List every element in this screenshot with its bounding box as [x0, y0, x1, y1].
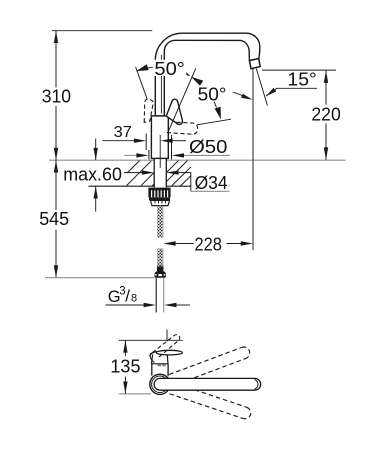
dim 135 line upper part	[124, 340, 126, 356]
deck hatching left	[127, 161, 155, 186]
svg-text:8: 8	[131, 293, 137, 305]
deck hatching right	[166, 161, 191, 186]
svg-text:37: 37	[114, 124, 132, 141]
bottom view lever front lip	[150, 352, 157, 363]
axis line A of dashed-left handle	[136, 67, 148, 99]
horizontal reference line at spout outlet height	[262, 69, 336, 71]
mounting nut middle band	[149, 197, 170, 200]
dim 545 bottom reference line	[45, 277, 155, 279]
dim O50 left tail and arrowhead	[124, 154, 136, 156]
mounting nut knurled ring	[148, 188, 170, 198]
dim 545 line upper part	[55, 160, 57, 210]
dim 310 arrow up	[54, 31, 58, 43]
spout outlet 15deg axis line	[256, 69, 267, 106]
dim 228 line right part	[227, 243, 245, 245]
spout aerator band	[249, 59, 260, 69]
dim 310 line upper part	[55, 31, 57, 88]
axis line C of dashed-right handle	[197, 119, 231, 125]
dim 310 arrow down	[54, 148, 58, 160]
dim max60 lower arrowhead	[94, 186, 98, 198]
dim max60 upper arrow stem	[95, 139, 97, 161]
spout outlet vertical extension line	[252, 68, 254, 250]
dashed spout position lower	[169, 383, 252, 421]
dim 545 arrow down	[54, 265, 58, 277]
50deg arc 2 lower stub	[214, 102, 216, 108]
bottom view solid spout capsule	[154, 378, 261, 390]
dim 220 arrow down	[324, 147, 328, 159]
svg-text:135: 135	[110, 356, 140, 376]
50deg arc 1 left arrowhead	[136, 64, 149, 71]
dim O34 line left part	[124, 172, 142, 174]
dim 545 line lower part	[55, 230, 57, 278]
dim 228 line left part	[174, 243, 194, 245]
50deg arc 1 left stub	[137, 67, 154, 71]
dim 310 line lower part	[55, 106, 57, 160]
body centerline	[159, 135, 161, 168]
dashed handle (left position)	[144, 99, 153, 122]
bottom view logo mark	[158, 364, 161, 366]
hose end connector cap	[157, 266, 164, 271]
15deg arc tail left with arrowhead	[233, 92, 246, 97]
dim max60 lower arrow stem	[95, 186, 97, 212]
svg-text:15°: 15°	[287, 69, 316, 89]
dim 228 left arrowhead at hose	[163, 241, 175, 245]
svg-text:310: 310	[42, 87, 71, 107]
faucet shank through deck	[153, 159, 155, 188]
svg-text:50°: 50°	[198, 84, 227, 104]
bottom view lever ellipse	[156, 350, 182, 355]
svg-text:50°: 50°	[154, 59, 184, 79]
dim 135 line lower part	[124, 377, 126, 394]
extension stub right of body	[171, 135, 173, 159]
svg-text:Ø34: Ø34	[195, 173, 228, 193]
dim 37 left-pointing arrowhead at centerline with tail	[160, 139, 172, 143]
label G3/8	[108, 286, 137, 306]
spout capsule end inner arc	[255, 380, 259, 390]
axis line B of solid handle	[168, 68, 196, 131]
extension line above dashed handle	[166, 330, 168, 342]
dim 220 arrow up	[324, 71, 328, 83]
svg-text:220: 220	[311, 104, 340, 124]
dim O34 right-pointing arrowhead at shank left	[142, 170, 154, 174]
faucet body	[151, 116, 168, 158]
faucet spout tube (U-shape)	[155, 33, 260, 116]
countertop deck top line	[49, 159, 346, 161]
dim 228 right arrowhead at outlet axis	[241, 241, 253, 245]
50deg arc 1 right arrowhead	[179, 68, 191, 77]
dim 135 arrow down	[123, 382, 127, 394]
svg-text:Ø50: Ø50	[189, 137, 227, 157]
bottom view top reference line	[119, 339, 183, 341]
extension stub left of body	[148, 150, 150, 160]
dim G3/8 line right with arrowhead	[177, 304, 191, 306]
bottom view spout ring middle	[152, 376, 169, 393]
svg-text:228: 228	[195, 234, 222, 254]
svg-text:/: /	[125, 286, 130, 305]
dim O34 line right part with corner drop	[179, 173, 191, 192]
white backing for 50deg label 1	[153, 60, 187, 76]
G3/8 connection pipe	[155, 278, 157, 313]
flexible hose upper segment	[157, 206, 163, 238]
dim 220 line upper part	[325, 71, 327, 105]
svg-text:545: 545	[39, 209, 69, 229]
dashed handle up position	[150, 335, 180, 358]
dim max60 upper arrowhead	[94, 148, 98, 160]
flexible hose lower segment	[157, 249, 163, 267]
mounting nut lower cone	[150, 200, 169, 205]
spout tube inner highlight line	[160, 55, 162, 114]
50deg arc 2 lower arrowhead	[215, 107, 221, 120]
shank interior white	[154, 159, 166, 188]
bottom view body column	[152, 364, 168, 376]
dim 37 right-pointing arrowhead at ext line	[134, 139, 146, 143]
svg-text:max.60: max.60	[63, 165, 122, 185]
15deg leader polyline	[266, 88, 317, 96]
bottom view gray base line	[119, 393, 151, 395]
bottom view spout ring outer	[150, 374, 170, 394]
dim O34 left-pointing arrowhead at shank right	[166, 170, 178, 174]
dim O34 gray underline	[191, 190, 230, 192]
dim O50 right arrowhead and tail	[172, 153, 184, 157]
50deg arc 2 upper arrowhead	[191, 77, 203, 86]
dim 135 arrow up	[123, 340, 127, 352]
dim 37 line with text gap	[103, 140, 135, 142]
dashed handle (horizontal right position)	[164, 122, 198, 134]
white backing for 50deg label 2	[197, 86, 228, 102]
dim 310 top reference line	[52, 30, 152, 32]
deck bottom line left	[89, 185, 155, 187]
15deg leader arrowhead	[266, 88, 277, 97]
dim 545 arrow up	[54, 160, 58, 172]
dim G3/8 line left with arrowhead	[106, 304, 145, 306]
dim 220 line lower part	[325, 124, 327, 160]
deck bottom line right	[166, 185, 190, 187]
extension line for 37 dim	[145, 134, 147, 151]
bottom view cartridge housing	[151, 355, 168, 364]
solid handle lever	[166, 99, 182, 124]
dashed spout position upper	[169, 345, 251, 385]
